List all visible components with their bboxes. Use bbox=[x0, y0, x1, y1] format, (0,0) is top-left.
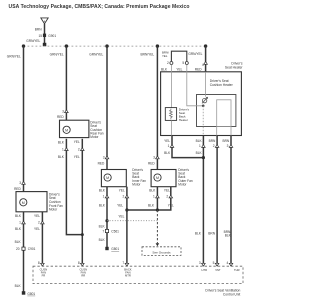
svg-text:20: 20 bbox=[16, 247, 20, 251]
terminal arrow into control unit pin 4 bbox=[229, 263, 233, 266]
ground symbol G901 triangle bbox=[41, 18, 48, 24]
net label CUSN FAN FR bbox=[40, 268, 48, 278]
svg-text:BLK: BLK bbox=[149, 188, 156, 192]
svg-text:YEL: YEL bbox=[118, 214, 124, 218]
junction dot bbox=[81, 233, 84, 236]
terminal arrow pin 3 bbox=[229, 145, 233, 148]
thermostat node dot bbox=[202, 105, 205, 108]
wire M3 pin2 YEL down to control unit bbox=[126, 187, 128, 266]
svg-text:1: 1 bbox=[62, 147, 64, 151]
label Driver's Seat Heater bbox=[225, 62, 243, 70]
junction dot bbox=[125, 208, 128, 211]
terminal arrow pin 4 bbox=[204, 62, 208, 65]
svg-text:BLK: BLK bbox=[195, 231, 202, 235]
terminal arrow pin 3 of inner fan motor bbox=[105, 156, 109, 159]
svg-text:THR: THR bbox=[234, 268, 240, 272]
svg-text:2: 2 bbox=[213, 144, 215, 148]
control unit dashed box bbox=[33, 266, 243, 283]
svg-text:YEL: YEL bbox=[117, 204, 123, 208]
svg-text:C901: C901 bbox=[28, 247, 36, 251]
wire M1 pin2 YEL down to control unit bbox=[41, 212, 43, 266]
svg-text:M: M bbox=[106, 176, 109, 180]
svg-text:FR: FR bbox=[42, 273, 46, 277]
shield drain dashed wire down bbox=[156, 210, 158, 243]
svg-text:G901: G901 bbox=[48, 34, 56, 38]
arrow into See Grounds bbox=[156, 243, 160, 246]
terminal arrow pin 3 of rear fan motor bbox=[65, 110, 69, 113]
svg-text:C561: C561 bbox=[111, 229, 119, 233]
dashed ground rail bbox=[24, 45, 206, 47]
terminal square at dashed rail bbox=[43, 43, 47, 47]
svg-text:1: 1 bbox=[168, 144, 170, 148]
terminal arrow into control unit pin 7 bbox=[125, 263, 129, 266]
svg-text:YEL: YEL bbox=[34, 214, 40, 218]
svg-text:YEL: YEL bbox=[74, 140, 80, 144]
svg-text:4: 4 bbox=[227, 261, 229, 265]
interior wire pin4 to thermostat bbox=[205, 72, 207, 97]
terminal arrow pin 3 of front fan motor bbox=[22, 182, 26, 185]
svg-text:4: 4 bbox=[202, 63, 204, 67]
svg-text:VNT: VNT bbox=[215, 268, 221, 272]
node wire3 top bbox=[105, 44, 108, 47]
svg-text:Motor: Motor bbox=[178, 183, 187, 187]
svg-text:RED: RED bbox=[57, 115, 64, 119]
svg-text:Control Unit: Control Unit bbox=[223, 293, 240, 297]
terminal arrow into control unit pin 3 bbox=[202, 263, 206, 266]
svg-text:1: 1 bbox=[199, 144, 201, 148]
junction dot shield tie bbox=[105, 219, 108, 222]
node wire1 top bbox=[22, 44, 25, 47]
svg-text:G801: G801 bbox=[111, 247, 119, 251]
svg-text:M: M bbox=[22, 201, 25, 205]
svg-text:Seat Heater: Seat Heater bbox=[225, 66, 243, 70]
svg-text:Motor: Motor bbox=[49, 208, 58, 212]
motor M2 Driver's Seat Cushion Rear Fan Motor box bbox=[60, 120, 89, 137]
svg-text:GRN/YEL: GRN/YEL bbox=[89, 53, 103, 57]
svg-text:USA Technology Package, CMBS/P: USA Technology Package, CMBS/PAX; Canada… bbox=[9, 4, 190, 10]
svg-text:BLK: BLK bbox=[58, 155, 65, 159]
svg-text:YEL: YEL bbox=[176, 68, 182, 72]
motor M1 Driver's Seat Cushion Front Fan Motor box bbox=[16, 192, 47, 212]
shield tie dotted wire bbox=[107, 220, 157, 222]
svg-text:YEL: YEL bbox=[119, 188, 125, 192]
terminal arrow pin 1 bbox=[156, 195, 160, 198]
motor M4 Driver's Seat Back Outer Fan Motor box bbox=[151, 170, 176, 187]
svg-text:YEL: YEL bbox=[74, 155, 80, 159]
terminal arrow pin 2 bbox=[169, 195, 173, 198]
svg-text:M: M bbox=[65, 128, 68, 132]
terminal arrow pin 1 bbox=[65, 148, 69, 151]
wire M2 pin1 BLK down then right bbox=[66, 139, 82, 235]
terminal arrow pin 2 bbox=[41, 221, 45, 224]
svg-text:1: 1 bbox=[103, 195, 105, 199]
svg-text:RED: RED bbox=[14, 187, 21, 191]
svg-text:1: 1 bbox=[19, 221, 21, 225]
interior wire pin5 to thermostat node bbox=[187, 65, 203, 106]
svg-text:3: 3 bbox=[62, 109, 64, 113]
svg-text:2: 2 bbox=[38, 221, 40, 225]
svg-text:8: 8 bbox=[78, 261, 80, 265]
svg-text:3: 3 bbox=[199, 261, 201, 265]
svg-text:2: 2 bbox=[167, 61, 169, 65]
svg-text:Motor: Motor bbox=[90, 135, 99, 139]
svg-text:BLK: BLK bbox=[196, 151, 203, 155]
svg-text:GRN/YEL: GRN/YEL bbox=[26, 39, 40, 43]
interior wire back heater to box bottom bbox=[170, 120, 172, 135]
pin 5 socket circle bbox=[185, 62, 188, 65]
terminal arrow into control unit pin 8 bbox=[81, 263, 85, 266]
jumper color label BRN YEL bbox=[162, 51, 169, 58]
svg-text:RED: RED bbox=[195, 68, 202, 72]
terminal arrow pin 2 bbox=[81, 148, 85, 151]
svg-text:A: A bbox=[43, 19, 45, 23]
svg-text:BLK: BLK bbox=[196, 139, 203, 143]
svg-text:GRN/YEL: GRN/YEL bbox=[7, 54, 21, 58]
svg-text:7: 7 bbox=[122, 261, 124, 265]
wire W2 GRN/YEL to rear fan motor bbox=[65, 46, 67, 120]
label Driver's Seat Cushion Front Fan Motor bbox=[49, 192, 63, 211]
svg-text:BLK: BLK bbox=[99, 188, 106, 192]
svg-text:2: 2 bbox=[166, 195, 168, 199]
svg-text:BRN: BRN bbox=[222, 139, 229, 143]
svg-text:3: 3 bbox=[227, 144, 229, 148]
svg-text:Cushion Heater: Cushion Heater bbox=[210, 83, 234, 87]
svg-text:BLK: BLK bbox=[99, 238, 106, 242]
wire M4 pin1 BLK down to shield junction bbox=[156, 187, 158, 210]
component U1 Driver's Seat Heater outer box bbox=[161, 72, 242, 136]
svg-text:GRN/YEL: GRN/YEL bbox=[50, 53, 64, 57]
wire W3 GRN/YEL to back inner fan motor bbox=[106, 46, 108, 169]
terminal arrow pin 1 bbox=[170, 145, 174, 148]
svg-text:15: 15 bbox=[38, 34, 42, 38]
svg-text:3: 3 bbox=[153, 156, 155, 160]
label Driver's Seat Back Inner Fan Motor bbox=[132, 168, 146, 187]
label Driver's Seat Ventilation Control Unit bbox=[205, 289, 240, 297]
svg-text:BRN: BRN bbox=[209, 139, 216, 143]
svg-text:2: 2 bbox=[123, 195, 125, 199]
terminal arrow into control unit pin 5 bbox=[215, 263, 219, 266]
svg-text:BRN: BRN bbox=[208, 231, 215, 235]
svg-text:Heater: Heater bbox=[179, 118, 188, 122]
svg-text:RED: RED bbox=[98, 161, 105, 165]
svg-text:YEL: YEL bbox=[164, 188, 170, 192]
svg-text:BLK: BLK bbox=[99, 225, 106, 229]
node wire4 top bbox=[156, 44, 159, 47]
svg-text:GRN/YEL: GRN/YEL bbox=[188, 52, 202, 56]
wire from G901 down bbox=[44, 24, 46, 43]
label Driver's Seat Cushion Heater bbox=[210, 79, 234, 87]
element lead left bbox=[216, 127, 218, 136]
wire heater pin1b BLK down to control unit pin 3 bbox=[202, 136, 204, 267]
svg-text:5: 5 bbox=[182, 61, 184, 65]
terminal arrow pin 1 bbox=[22, 221, 26, 224]
wire heater pin3 BRN/BLK down to control unit pin 4 bbox=[230, 136, 232, 267]
connector C901 square bbox=[22, 247, 25, 250]
svg-text:Motor: Motor bbox=[132, 183, 141, 187]
terminal arrow pin 3 of outer fan motor bbox=[156, 156, 160, 159]
wire M3 pin1 BLK down through C561 to G801 bbox=[106, 187, 108, 248]
svg-text:RED: RED bbox=[148, 161, 155, 165]
label Driver's Seat Back Heater bbox=[179, 107, 190, 122]
svg-text:BLK: BLK bbox=[161, 68, 168, 72]
terminal arrow pin 1 bbox=[202, 145, 206, 148]
heating element rectangle bbox=[217, 100, 231, 127]
svg-text:7: 7 bbox=[102, 229, 104, 233]
svg-text:1: 1 bbox=[153, 195, 155, 199]
motor M3 Driver's Seat Back Inner Fan Motor box bbox=[101, 170, 126, 187]
svg-text:YEL: YEL bbox=[34, 227, 40, 231]
svg-text:BLK: BLK bbox=[58, 141, 65, 145]
junction dot bbox=[156, 208, 159, 211]
svg-text:M: M bbox=[156, 176, 159, 180]
label Driver's Seat Cushion Rear Fan Motor bbox=[90, 120, 104, 139]
svg-text:BRN/YEL: BRN/YEL bbox=[141, 53, 155, 57]
svg-text:HTR: HTR bbox=[202, 268, 208, 272]
ground G801 terminal square bbox=[22, 291, 26, 295]
interior wire pin2 to back heater bbox=[170, 65, 172, 108]
svg-text:G801: G801 bbox=[27, 292, 35, 296]
svg-text:YEL: YEL bbox=[168, 204, 174, 208]
svg-text:BLK: BLK bbox=[15, 214, 22, 218]
connector 15 marker bbox=[43, 34, 46, 37]
svg-text:YEL: YEL bbox=[162, 54, 168, 58]
svg-text:BLK: BLK bbox=[15, 227, 22, 231]
pin 2 socket circle bbox=[170, 62, 173, 65]
ground G801 mid terminal square bbox=[105, 247, 108, 250]
jumper between pin2 and pin5 bbox=[171, 51, 186, 61]
connector C561 square bbox=[105, 229, 108, 232]
terminal arrow pin 2 bbox=[215, 145, 219, 148]
terminal arrow into control unit pin 8 bbox=[41, 263, 45, 266]
svg-text:RR: RR bbox=[81, 273, 85, 277]
label BRN/BLK bbox=[224, 230, 232, 238]
node wire5 top bbox=[204, 44, 207, 47]
See Grounds dashed box bbox=[142, 247, 181, 256]
svg-text:5: 5 bbox=[213, 261, 215, 265]
wire junction bus at y210 bbox=[127, 209, 157, 211]
net label BACK FAN MTR bbox=[124, 268, 132, 278]
svg-text:YEL: YEL bbox=[164, 139, 170, 143]
svg-text:BLK: BLK bbox=[164, 151, 171, 155]
svg-text:3: 3 bbox=[103, 156, 105, 160]
label Driver's Seat Back Outer Fan Motor bbox=[178, 168, 193, 187]
wire M1 pin1 BLK down to G801 bbox=[23, 212, 25, 292]
svg-text:BLK: BLK bbox=[148, 204, 155, 208]
svg-text:2: 2 bbox=[78, 147, 80, 151]
svg-text:BLK: BLK bbox=[225, 234, 232, 238]
thermostat in cushion heater bbox=[202, 97, 208, 103]
svg-text:8: 8 bbox=[38, 261, 40, 265]
wire M2 pin2 YEL down to control unit bbox=[81, 139, 83, 266]
wire heater pin2 BRN down to control unit pin 5 bbox=[216, 136, 218, 267]
terminal arrow pin 2 bbox=[125, 195, 129, 198]
wire W5 GRN/YEL to seat heater bbox=[205, 46, 207, 72]
net label CUSN FAN RR bbox=[79, 268, 87, 278]
svg-text:See Grounds: See Grounds bbox=[152, 250, 171, 254]
terminal arrow pin 1 bbox=[105, 195, 109, 198]
wire W1 GRN/YEL to front fan motor bbox=[7, 46, 24, 192]
svg-text:MTR: MTR bbox=[125, 273, 131, 277]
junction dot bbox=[202, 156, 205, 159]
wire heater pin1 YEL down then right bbox=[172, 136, 203, 158]
dashed link thermostat to box bottom bbox=[202, 106, 204, 136]
component back heater element box bbox=[165, 108, 176, 121]
svg-text:BLK: BLK bbox=[15, 240, 22, 244]
svg-text:BLK: BLK bbox=[99, 204, 106, 208]
wire M4 pin2 YEL down and left bbox=[157, 187, 170, 210]
svg-text:BRN: BRN bbox=[35, 28, 42, 32]
svg-text:3: 3 bbox=[19, 181, 21, 185]
wire W4 BRN/YEL to back outer fan motor bbox=[156, 46, 158, 169]
svg-text:BLK: BLK bbox=[15, 284, 22, 288]
element lead right bbox=[230, 127, 232, 136]
node wire2 top bbox=[65, 44, 68, 47]
inner cushion heater solid box bbox=[197, 95, 236, 127]
